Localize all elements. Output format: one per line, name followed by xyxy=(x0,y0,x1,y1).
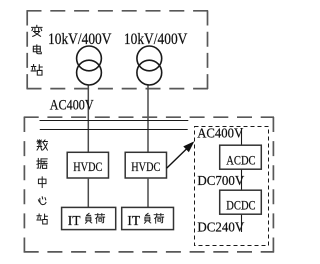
substation dashed box right edge xyxy=(207,11,209,90)
IT load 1 box xyxy=(62,207,116,229)
svg-text:ACDC: ACDC xyxy=(226,153,255,168)
IT load 2 box xyxy=(122,207,174,229)
bus line 2 xyxy=(40,129,188,131)
data centre dashed box right edge xyxy=(272,117,274,253)
DC bus vertical wire in detail xyxy=(241,128,243,232)
svg-text:DCDC: DCDC xyxy=(226,198,255,213)
substation dashed box left edge xyxy=(26,11,28,90)
transformer T1 xyxy=(77,46,102,71)
svg-text:AC400V: AC400V xyxy=(197,127,243,142)
label 数据中心站 vertical xyxy=(37,140,47,150)
data centre dashed box top edge xyxy=(24,116,274,118)
bus line 1 xyxy=(40,120,189,122)
svg-text:DC240V: DC240V xyxy=(197,220,244,235)
svg-text:IT: IT xyxy=(127,213,140,228)
svg-text:HVDC: HVDC xyxy=(131,159,160,174)
data centre dashed box bottom edge xyxy=(24,251,274,253)
transformer T1 stem wire xyxy=(87,85,89,153)
HVDC 2 box xyxy=(125,152,166,178)
svg-text:10kV/400V: 10kV/400V xyxy=(124,31,188,48)
substation dashed box (变电站) top edge xyxy=(27,10,209,12)
HVDC 1 box xyxy=(67,152,108,178)
transformer T2 stem wire xyxy=(147,85,149,153)
svg-text:10kV/400V: 10kV/400V xyxy=(48,31,112,48)
wire HVDC1 to IT load 1 xyxy=(87,178,89,207)
zoom arrow xyxy=(167,148,188,168)
HVDC detail fine dashed box xyxy=(195,127,269,246)
svg-text:IT: IT xyxy=(68,213,81,228)
svg-text:DC700V: DC700V xyxy=(197,174,244,189)
substation dashed box bottom edge xyxy=(27,88,209,90)
label 变电站 vertical xyxy=(32,25,42,36)
DCDC box xyxy=(220,190,262,214)
svg-text:AC400V: AC400V xyxy=(50,98,94,114)
transformer T2 xyxy=(137,46,162,71)
data centre dashed box left edge xyxy=(23,117,25,253)
ACDC box xyxy=(220,145,262,169)
svg-text:HVDC: HVDC xyxy=(73,159,102,174)
wire HVDC2 to IT load 2 xyxy=(147,178,149,207)
